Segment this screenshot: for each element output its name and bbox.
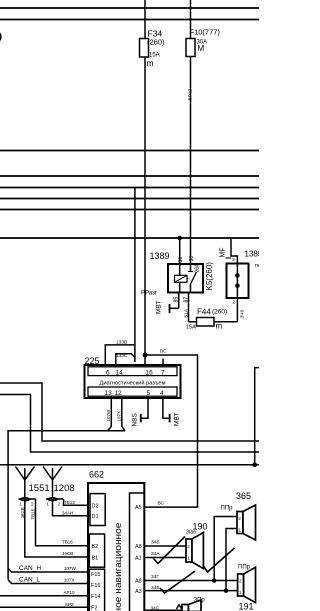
svg-text:6: 6 (106, 370, 110, 377)
svg-text:Диагностический разъем: Диагностический разъем (100, 380, 166, 387)
fuse F34 (140, 39, 149, 58)
svg-text:34А: 34А (151, 551, 160, 557)
svg-text:ВС: ВС (160, 349, 167, 355)
svg-text:A8: A8 (135, 579, 142, 585)
svg-text:пе: пе (255, 263, 259, 269)
svg-text:M: M (198, 44, 205, 53)
wire pin16 riser / node BC (143, 353, 148, 367)
chevron on 34C wire (177, 605, 182, 609)
wire SP2 (0, 606, 89, 608)
svg-text:133С: 133С (116, 353, 128, 359)
wire bus mid 2 (0, 175, 259, 177)
wire 34AN antenna 1208 pin1 to D1 (53, 499, 91, 516)
svg-text:13: 13 (105, 390, 113, 397)
svg-text:F2: F2 (91, 605, 97, 611)
svg-text:7: 7 (161, 370, 165, 377)
svg-text:34Г: 34Г (151, 574, 159, 580)
svg-text:ТВ13: ТВ13 (64, 500, 75, 505)
wire CAN H branch (8, 569, 89, 573)
wire A8 34B to speaker 190 (144, 545, 186, 547)
fuse F10 (186, 39, 195, 57)
svg-text:107W: 107W (106, 409, 111, 422)
wire MF pin2 down to F44 line (236, 298, 238, 322)
svg-text:F16: F16 (91, 583, 100, 589)
wire A3 34E to speaker 191 (144, 590, 237, 592)
svg-text:85: 85 (174, 297, 180, 303)
twisted pair slash 34G/34E (160, 571, 195, 593)
unit 662 pin box B (89, 534, 104, 567)
svg-text:34Е: 34Е (151, 585, 160, 591)
svg-text:1208: 1208 (54, 483, 75, 494)
svg-text:NBS: NBS (132, 412, 139, 426)
svg-text:ЗЧ6: ЗЧ6 (240, 310, 246, 319)
svg-text:86: 86 (178, 257, 184, 263)
wire 133C pin14 (116, 354, 135, 367)
svg-text:CAN_H: CAN_H (19, 565, 41, 572)
wire bus y465 (0, 464, 259, 466)
wire relay pin85 to MBT ground (170, 293, 179, 309)
svg-text:З/ав: З/ав (186, 529, 196, 535)
antenna 1551 (16, 467, 35, 498)
wire bus mid 1 (0, 150, 259, 152)
unit 662 pin box D (90, 494, 105, 526)
svg-text:12: 12 (115, 390, 123, 397)
wire CAN L branch (8, 580, 89, 584)
wire BC from connector to unit 662 pin A5 (144, 355, 197, 507)
wire bus mid 4 (0, 198, 259, 200)
svg-text:(260): (260) (212, 309, 227, 316)
wire pin7 stub (162, 359, 164, 367)
svg-text:МВТ: МВТ (174, 413, 181, 426)
wire pin5 to NBS terminal (141, 396, 148, 418)
svg-text:ППр: ППр (238, 565, 251, 571)
svg-text:2: 2 (233, 300, 236, 306)
wire 46CB antenna 1551 pin1 to B1 (25, 499, 90, 557)
svg-text:K5(260): K5(260) (205, 262, 214, 291)
svg-text:1551: 1551 (29, 483, 50, 494)
antenna 1208 (43, 467, 62, 498)
svg-text:BP12: BP12 (188, 88, 194, 100)
svg-text:F44: F44 (197, 308, 211, 317)
unit 662 main box (88, 483, 144, 611)
svg-text:B1: B1 (92, 556, 99, 562)
node 34E (224, 588, 229, 593)
svg-text:МВТ: МВТ (156, 301, 163, 314)
unit 662 pin box A (130, 493, 145, 611)
wire A8 34G to speaker 191 (144, 580, 237, 582)
wire AP10 (0, 595, 89, 597)
wire TB15 antenna 1551 pin2 to B2 (36, 499, 90, 546)
wire bus mid 5 (0, 209, 259, 211)
wire A1 34A to speaker 190 (144, 557, 186, 559)
wire F34 vertical (144, 0, 146, 355)
wire bus relay supply (0, 237, 259, 239)
speaker 365 (237, 505, 256, 540)
svg-text:ЗПр: ЗПр (194, 598, 206, 604)
svg-text:B2: B2 (92, 544, 99, 550)
twisted pair slash vertical pair (203, 548, 234, 572)
wire F10 vertical (190, 0, 192, 264)
svg-text:АР10: АР10 (64, 590, 76, 595)
svg-text:5: 5 (147, 390, 151, 397)
wire 133B pin6 (105, 345, 135, 367)
svg-text:4: 4 (160, 390, 164, 397)
wire pin12 riser (122, 396, 125, 431)
speaker 191 (238, 567, 256, 602)
svg-text:46СВ: 46СВ (62, 551, 73, 556)
svg-text:D2: D2 (92, 504, 99, 510)
wire CAN pair from connector (8, 431, 125, 580)
svg-text:133В: 133В (116, 340, 127, 346)
svg-text:F15: F15 (91, 572, 100, 578)
speaker ZPr (clipped) (182, 600, 201, 611)
svg-text:F14: F14 (91, 594, 100, 600)
terminal MBT (relay) (169, 304, 171, 313)
node on y465 bus (252, 463, 257, 468)
svg-text:107X: 107X (64, 578, 75, 583)
wire bus top 1 (0, 7, 259, 9)
svg-text:ное навигационное: ное навигационное (113, 523, 124, 611)
svg-text:ТВ15: ТВ15 (62, 540, 73, 545)
wire pin13 riser (108, 396, 112, 431)
svg-text:3: 3 (232, 257, 235, 263)
wire speaker365 pin2 down (214, 517, 237, 581)
wire pin4 to MBT terminal (163, 396, 170, 418)
svg-text:F10(777): F10(777) (190, 28, 221, 37)
svg-text:A5: A5 (135, 505, 142, 511)
svg-text:107W: 107W (64, 566, 77, 571)
wire bus mid 3 (0, 187, 259, 189)
svg-text:46СВ: 46СВ (20, 507, 25, 518)
wire TB13 antenna 1208 pin2 to D2 (64, 499, 91, 505)
svg-text:365: 365 (236, 491, 251, 501)
svg-text:A8: A8 (135, 544, 142, 550)
svg-text:m: m (147, 58, 154, 68)
node: relay coil junction (177, 236, 182, 264)
diagnostic connector 225 box (85, 365, 181, 398)
fuse F44 (197, 318, 215, 327)
svg-text:A3: A3 (135, 589, 142, 595)
svg-text:34Б: 34Б (151, 540, 159, 546)
svg-text:15A: 15A (186, 325, 196, 331)
wire 133 pair riser (134, 188, 136, 363)
svg-text:SР2: SР2 (65, 602, 74, 607)
svg-text:1385: 1385 (245, 250, 260, 259)
wire W2 from left edge down to bus 452 (0, 395, 259, 453)
svg-text:14: 14 (116, 370, 124, 377)
connector of antenna 1551 (19, 498, 36, 501)
terminal MBT (connector) (169, 414, 171, 423)
label clipped left edge (0, 32, 2, 41)
twisted pair slash 34B/34A (154, 537, 186, 564)
svg-text:34С: 34С (151, 605, 160, 611)
svg-text:191: 191 (239, 602, 254, 611)
svg-text:m: m (216, 322, 223, 331)
svg-text:107X: 107X (117, 411, 122, 422)
svg-text:30: 30 (189, 256, 195, 262)
svg-text:1389: 1389 (150, 251, 170, 261)
svg-text:ВС: ВС (158, 501, 165, 507)
svg-text:МF: МF (220, 247, 227, 257)
connector of antenna 1208 (46, 498, 64, 501)
svg-text:51А: 51А (184, 308, 190, 317)
node 34G (212, 578, 217, 583)
wire W1 from left edge down to bus 441 (0, 383, 259, 441)
wire relay pin87 to F44 (189, 293, 238, 322)
svg-text:16: 16 (146, 370, 154, 377)
svg-text:D1: D1 (92, 514, 99, 520)
wire from right edge down to bottom bus (255, 368, 259, 465)
wire bus top 2 (0, 19, 259, 21)
svg-text:284: 284 (195, 264, 201, 273)
speaker 190 (186, 533, 203, 569)
svg-text:(260): (260) (147, 38, 165, 47)
relay K5 1389 (168, 264, 203, 293)
svg-text:РРазг: РРазг (141, 291, 158, 297)
connector MF 1385 (226, 238, 249, 298)
svg-text:ТВ15: ТВ15 (31, 508, 36, 519)
svg-text:A1: A1 (135, 555, 142, 561)
terminal NBS (140, 414, 142, 423)
svg-text:34АН: 34АН (62, 510, 73, 515)
wire 34C to rear speaker (144, 609, 182, 611)
svg-text:662: 662 (89, 470, 104, 480)
wire speaker365 pin1 down (226, 529, 237, 591)
svg-text:225: 225 (85, 356, 100, 366)
svg-text:ППр: ППр (221, 506, 234, 512)
svg-text:CAN_L: CAN_L (19, 577, 40, 584)
svg-text:87: 87 (184, 297, 190, 303)
unit 662 pin box F (89, 569, 104, 611)
